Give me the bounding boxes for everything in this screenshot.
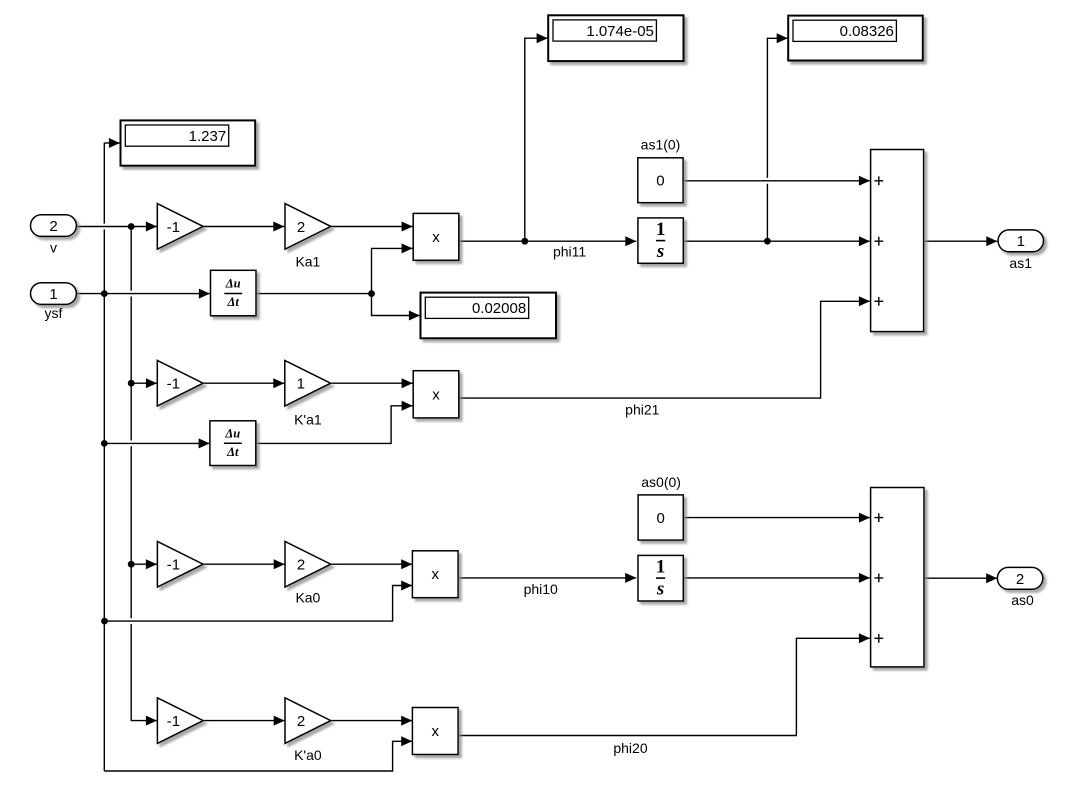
arrowhead into gain G5 (-1 row3) bbox=[146, 559, 157, 569]
wire branch to Display 0.02008 bbox=[372, 294, 420, 316]
derivative D1 (Delta u / Delta t) bbox=[211, 270, 257, 316]
wire trunk x104 to derivative D2 bbox=[104, 442, 209, 444]
wire sum S2 to outport as0 bbox=[924, 577, 997, 579]
wire phi20 product P4 to sum S2 input3 bbox=[459, 638, 870, 735]
arrowhead into gain G6 (Ka0) bbox=[274, 559, 285, 569]
integrator I1 (1/s) bbox=[638, 218, 683, 263]
arrowhead into derivative D1 bbox=[199, 289, 210, 299]
sum S2 (+++) bbox=[871, 488, 924, 667]
svg-text:phi11: phi11 bbox=[553, 243, 586, 259]
svg-text:as0: as0 bbox=[1011, 592, 1034, 608]
arrowhead into integrator I1 bbox=[625, 236, 636, 246]
svg-text:Δu: Δu bbox=[224, 427, 240, 441]
constant C1 value 0 bbox=[638, 158, 683, 203]
sum S1 (+++) bbox=[871, 150, 924, 332]
svg-text:phi20: phi20 bbox=[613, 740, 647, 756]
svg-text:Ka1: Ka1 bbox=[295, 253, 320, 269]
arrowhead into gain G3 (-1 row2) bbox=[146, 378, 157, 388]
svg-text:phi10: phi10 bbox=[524, 581, 558, 597]
gain G1 value -1 row1 bbox=[157, 204, 203, 250]
wire gain G5 to gain G6 bbox=[204, 563, 285, 565]
junction derivative D1 output branch bbox=[368, 290, 375, 297]
product P2 bbox=[413, 371, 459, 418]
svg-text:1: 1 bbox=[1017, 233, 1025, 250]
svg-text:-1: -1 bbox=[167, 713, 180, 730]
svg-text:2: 2 bbox=[297, 219, 305, 236]
svg-text:1: 1 bbox=[656, 557, 666, 578]
arrowhead into integrator I2 bbox=[625, 573, 636, 583]
svg-text:as1(0): as1(0) bbox=[641, 136, 681, 152]
wire branch up to Display 1.074e-05 bbox=[525, 38, 548, 241]
svg-text:x: x bbox=[431, 723, 439, 740]
svg-text:Ka0: Ka0 bbox=[295, 590, 320, 606]
wire trunk branch to gain G3 bbox=[131, 382, 157, 384]
junction integrator I1 output branch bbox=[764, 238, 771, 245]
arrowhead into gain G4 (K'a1) bbox=[273, 378, 284, 388]
wire trunk branch to gain G5 bbox=[131, 563, 157, 565]
wire gain G2 to product P1 input1 bbox=[331, 226, 413, 228]
constant C2 value 0 bbox=[638, 495, 683, 540]
gain G8 K'a0 value 2 bbox=[285, 698, 331, 744]
arrowhead into product P4 input1 bbox=[401, 716, 412, 726]
outport 2 (as0) bbox=[997, 567, 1042, 589]
svg-text:s: s bbox=[656, 241, 664, 262]
svg-text:Δt: Δt bbox=[226, 445, 239, 459]
svg-text:x: x bbox=[432, 229, 440, 246]
junction trunk x131 / row3 branch bbox=[128, 561, 135, 568]
svg-text:Δu: Δu bbox=[225, 277, 241, 291]
svg-text:s: s bbox=[656, 579, 664, 600]
svg-text:2: 2 bbox=[297, 713, 305, 730]
gain G4 K'a1 value 1 bbox=[285, 360, 331, 406]
wire gain G4 to product P2 input1 bbox=[331, 382, 413, 384]
wire constant C1 to sum S1 input1 bbox=[683, 180, 870, 182]
arrowhead into outport as1 bbox=[986, 236, 997, 246]
arrowhead into Display 0.02008 bbox=[409, 311, 420, 321]
wire ysf trunk vertical x=104 with hop gap at v wire bbox=[103, 143, 105, 771]
svg-text:2: 2 bbox=[1016, 571, 1024, 588]
wire phi10 product P3 to integrator I2 bbox=[459, 577, 636, 579]
svg-text:x: x bbox=[432, 386, 440, 403]
svg-text:1: 1 bbox=[297, 376, 305, 393]
svg-text:-1: -1 bbox=[167, 557, 180, 574]
svg-text:as0(0): as0(0) bbox=[641, 474, 681, 490]
display value 0.02008 bbox=[421, 293, 557, 339]
product P3 bbox=[412, 551, 458, 598]
svg-text:-1: -1 bbox=[167, 376, 180, 393]
junction v wire / trunk x131 bbox=[128, 223, 135, 230]
svg-text:2: 2 bbox=[49, 218, 57, 235]
wire gain G1 to gain G2 bbox=[203, 226, 284, 228]
junction trunk x131 / row2 branch bbox=[128, 380, 135, 387]
wire v trunk vertical x=131 with hop gaps bbox=[131, 227, 157, 721]
svg-text:-1: -1 bbox=[167, 219, 180, 236]
gain G7 value -1 row4 bbox=[157, 698, 203, 744]
arrowhead into sum S2 input2 bbox=[859, 573, 870, 583]
wire gain G8 to product P4 input1 bbox=[331, 720, 412, 722]
junction trunk x104 / row3 bottom branch bbox=[101, 618, 108, 625]
arrowhead into gain G1 (-1 row1) bbox=[146, 222, 157, 232]
svg-text:0: 0 bbox=[657, 510, 665, 527]
wire integrator I1 to sum S1 input2 bbox=[683, 240, 870, 242]
wire sum S1 to outport as1 bbox=[924, 240, 998, 242]
arrowhead into Display1237 bbox=[109, 138, 120, 148]
svg-text:1.237: 1.237 bbox=[189, 128, 227, 145]
arrowhead into derivative D2 bbox=[199, 438, 210, 448]
arrowhead into product P2 input1 bbox=[402, 378, 413, 388]
arrowhead into sum S2 input3 bbox=[859, 633, 870, 643]
arrowhead into sum S1 input1 bbox=[859, 176, 870, 186]
display value 1.074e-05 bbox=[548, 15, 683, 61]
outport 1 (as1) bbox=[998, 230, 1043, 252]
junction trunk x104 / derivative D2 branch bbox=[101, 440, 108, 447]
wire constant C2 to sum S2 input1 bbox=[683, 517, 870, 519]
arrowhead into Display 0.08326 bbox=[777, 33, 788, 43]
arrowhead into product P1 input2 bbox=[402, 243, 413, 253]
arrowhead into sum S1 input3 bbox=[859, 296, 870, 306]
arrowhead into gain G8 (K'a0) bbox=[274, 716, 285, 726]
arrowhead into product P2 input2 bbox=[402, 401, 413, 411]
derivative D2 (Delta u / Delta t) bbox=[210, 421, 256, 466]
svg-text:0.08326: 0.08326 bbox=[840, 23, 894, 40]
arrowhead into product P1 input1 bbox=[402, 222, 413, 232]
display value 0.08326 bbox=[788, 16, 923, 61]
wire phi21 product P2 to sum S1 input3 bbox=[459, 301, 870, 398]
wire derivative D2 to product P2 input2 bbox=[256, 406, 413, 444]
arrowhead into sum S2 input1 bbox=[859, 513, 870, 523]
arrowhead into Display 1.074e-05 bbox=[537, 33, 548, 43]
inport 1 (ysf) bbox=[31, 283, 77, 305]
junction phi11 / display branch bbox=[521, 238, 528, 245]
gain G2 Ka1 value 2 bbox=[285, 204, 331, 250]
wire phi11 product P1 to integrator I1 bbox=[459, 240, 637, 242]
product P1 bbox=[413, 213, 459, 260]
wire derivative D1 out to product P1 input2 bbox=[256, 248, 413, 293]
svg-text:K'a0: K'a0 bbox=[294, 747, 322, 763]
svg-text:1.074e-05: 1.074e-05 bbox=[586, 23, 654, 40]
wire gain G3 to gain G4 bbox=[204, 382, 285, 384]
svg-text:1: 1 bbox=[49, 286, 57, 303]
wire gain G7 to gain G8 bbox=[204, 720, 285, 722]
svg-text:K'a1: K'a1 bbox=[294, 411, 322, 427]
arrowhead into outport as0 bbox=[986, 573, 997, 583]
wire ysf branch to display Display1237 bbox=[104, 142, 120, 144]
svg-text:2: 2 bbox=[297, 557, 305, 574]
wire v inport to gain G1 bbox=[76, 226, 156, 228]
arrowhead into gain G7 (-1 row4) bbox=[146, 716, 157, 726]
arrowhead into product P3 input1 bbox=[401, 559, 412, 569]
display Display1237 value 1.237 bbox=[121, 120, 256, 165]
svg-text:v: v bbox=[50, 239, 57, 255]
wire ysf inport to derivative D1 bbox=[76, 293, 210, 295]
arrowhead into sum S1 input2 bbox=[859, 236, 870, 246]
svg-text:0: 0 bbox=[656, 173, 664, 190]
gain G3 value -1 row2 bbox=[157, 360, 203, 406]
svg-text:x: x bbox=[431, 566, 439, 583]
inport 2 (v) bbox=[31, 215, 77, 237]
arrowhead into product P4 input2 bbox=[401, 736, 412, 746]
junction ysf wire / trunk x104 bbox=[101, 290, 108, 297]
wire branch up to Display 0.08326 with hop gap bbox=[767, 38, 787, 241]
arrowhead into gain G2 (Ka1) bbox=[273, 222, 284, 232]
svg-text:Δt: Δt bbox=[227, 295, 240, 309]
wire integrator I2 to sum S2 input2 bbox=[683, 577, 870, 579]
wire gain G6 to product P3 input1 bbox=[331, 563, 412, 565]
svg-text:as1: as1 bbox=[1009, 255, 1032, 271]
svg-text:0.02008: 0.02008 bbox=[472, 300, 526, 317]
product P4 bbox=[412, 708, 458, 755]
arrowhead into product P3 input2 bbox=[401, 581, 412, 591]
integrator I2 (1/s) bbox=[638, 555, 683, 601]
svg-text:1: 1 bbox=[656, 219, 666, 240]
svg-text:ysf: ysf bbox=[45, 305, 63, 321]
gain G6 Ka0 value 2 bbox=[285, 541, 331, 587]
gain G5 value -1 row3 bbox=[157, 541, 203, 587]
wire trunk x104 to product P3 input2 bbox=[105, 586, 413, 622]
svg-text:phi21: phi21 bbox=[625, 402, 659, 418]
wire trunk x104 bottom to product P4 input2 bbox=[104, 741, 412, 771]
